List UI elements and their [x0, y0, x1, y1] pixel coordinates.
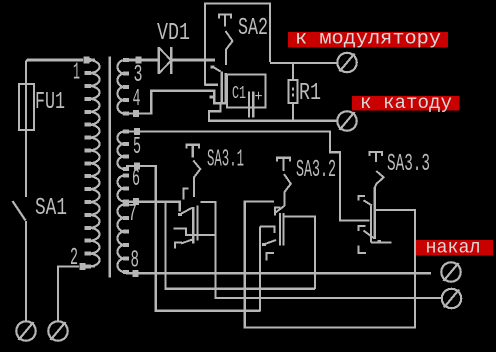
secondary winding 5-6 — [118, 132, 125, 170]
wire: SA3.3 wafer to heater label — [376, 209, 417, 211]
wire: R1 top lead — [292, 64, 294, 80]
switch SA1 — [13, 201, 26, 221]
wire: SA3.1 wafer to heater terminal 2 — [201, 202, 442, 298]
svg-text:R1: R1 — [299, 80, 321, 107]
wire: SA3.2 wafer contact down to pin6 bus — [259, 227, 261, 312]
arrow at primary pin 1 — [84, 57, 90, 64]
svg-text:к модулятору: к модулятору — [295, 28, 441, 50]
red label box: накал — [416, 240, 493, 256]
wire: SA1 to plug terminal — [25, 221, 27, 322]
transformer T1 primary winding — [89, 60, 100, 266]
terminal к модулятору — [337, 53, 356, 72]
wire: pin 7 to SA3.1 wiper — [126, 202, 180, 212]
wire: pin 6 down and across — [126, 166, 260, 311]
arrow at pin 6 — [134, 163, 140, 170]
svg-text:3: 3 — [134, 62, 143, 89]
svg-text:SA2: SA2 — [238, 15, 268, 42]
terminal heater 2 — [442, 289, 461, 308]
rotary wafer SA3.3 — [358, 187, 392, 254]
svg-text:7: 7 — [128, 201, 137, 228]
wire: SA2 box to R1 and modulator terminal — [270, 62, 338, 64]
secondary winding 6-7 — [118, 176, 125, 202]
contact stub — [210, 96, 214, 99]
arrow at pin 5 — [134, 128, 140, 135]
secondary winding 7-8 — [118, 205, 125, 273]
wire: pin 4 runs to connector — [126, 91, 227, 114]
resistor R1 — [289, 80, 298, 103]
switch SA2 — [218, 14, 233, 65]
svg-text:1: 1 — [73, 60, 80, 87]
switch SA3.3 — [369, 151, 384, 187]
switch SA3.1 — [186, 144, 201, 197]
switch SA3.2 — [276, 157, 292, 213]
svg-text:SA3.1: SA3.1 — [207, 147, 244, 174]
svg-text:+: + — [255, 88, 263, 106]
red label box: к катоду — [352, 96, 460, 111]
svg-text:5: 5 — [133, 134, 141, 161]
fuse FU1 — [19, 84, 34, 130]
svg-text:SA3.2: SA3.2 — [296, 157, 336, 184]
wire: R1 bottom lead — [292, 103, 294, 120]
transformer core — [108, 57, 111, 278]
svg-text:6: 6 — [132, 166, 140, 193]
arrow at pin 3 — [136, 57, 142, 64]
rotary wafer SA3.2 — [260, 207, 284, 260]
svg-text:SA1: SA1 — [35, 195, 67, 222]
rotary wafer SA3.1 — [174, 189, 216, 249]
wire: through fuse to SA1 — [25, 85, 27, 197]
terminal plug right — [48, 321, 67, 340]
arrow at pin 7 — [133, 198, 139, 205]
secondary winding 3-4 — [117, 60, 124, 113]
wire: pin 3 to diode VD1 — [126, 59, 158, 62]
capacitor C1 loop box — [227, 75, 266, 108]
arrow at pin 8 — [133, 270, 139, 277]
svg-text:4: 4 — [133, 86, 141, 113]
wire: SA3.2 wafer right to return bus — [285, 217, 316, 289]
svg-text:к катоду: к катоду — [360, 92, 452, 114]
wire: SA3.2 wafer left to heater bottom bus — [245, 202, 415, 328]
diode VD1 — [159, 47, 172, 74]
wire: cathode bus — [209, 103, 337, 121]
connector contacts under SA2 — [211, 66, 215, 69]
red label box: к модулятору — [288, 32, 448, 48]
wire stub at SA2 box bottom — [205, 84, 219, 86]
svg-text:C1: C1 — [232, 84, 246, 104]
svg-text:SA3.3: SA3.3 — [387, 151, 430, 178]
wire: primary pin 2 to plug terminal — [58, 267, 79, 323]
terminal к катоду — [337, 111, 356, 130]
wire: diode cathode to SA2 contact — [172, 59, 215, 62]
arrow at primary pin 2 — [80, 263, 86, 270]
arrow at pin 4 — [133, 110, 139, 117]
capacitor C1 plates — [248, 92, 250, 118]
wire: pin 8 heater bus to terminal — [126, 272, 431, 274]
terminal heater 1 — [441, 262, 460, 281]
wire: mains top from fuse to primary pin 1 — [26, 60, 83, 85]
svg-text:8: 8 — [131, 248, 140, 275]
SA2 screen box — [205, 4, 270, 86]
wire: pin 5 bus to SA3.3 — [126, 132, 370, 221]
svg-text:VD1: VD1 — [157, 20, 190, 47]
svg-text:накал: накал — [426, 237, 481, 259]
svg-text:2: 2 — [70, 245, 78, 272]
svg-text:FU1: FU1 — [35, 89, 65, 116]
terminal plug left — [16, 321, 35, 340]
wire: branch down to heater return — [166, 202, 315, 289]
